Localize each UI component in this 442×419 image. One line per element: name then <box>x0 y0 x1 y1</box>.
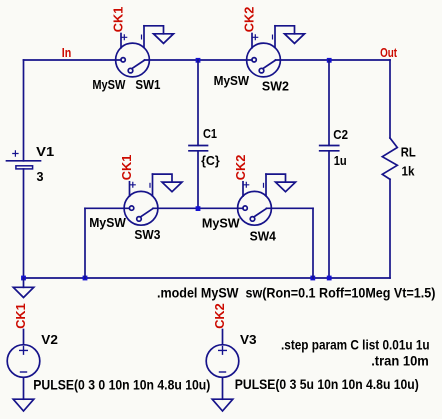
svg-text:1u: 1u <box>334 153 347 168</box>
svg-text:CK1: CK1 <box>119 155 134 181</box>
SW3 control pin minus <box>152 174 154 196</box>
SW4 pivot contact circle <box>250 217 255 222</box>
SW2 plus mark <box>252 34 258 40</box>
svg-text:CK1: CK1 <box>111 7 126 33</box>
junction bus at SW4 branch <box>310 276 315 281</box>
svg-text:CK2: CK2 <box>233 155 248 180</box>
junction bus at C2 <box>327 276 332 281</box>
switch SW3 body circle <box>124 174 158 225</box>
junction bus at SW3 branch <box>83 276 88 281</box>
svg-text:CK2: CK2 <box>242 7 257 33</box>
wire: C2 bottom branch to bus <box>328 151 330 278</box>
svg-text:SW1: SW1 <box>135 77 160 92</box>
SW1 switch arm <box>132 60 145 69</box>
ground flag at SW1 minus pin <box>144 26 174 44</box>
SW3 switch arm <box>140 208 153 217</box>
svg-text:CK2: CK2 <box>212 303 227 329</box>
SW1 control pin minus <box>143 26 145 48</box>
SW2 control pin plus <box>251 34 253 48</box>
wire: SW4 right pin to right branch <box>267 207 314 209</box>
ground flag at SW4 minus pin <box>266 174 296 192</box>
capacitor C1 plates <box>189 146 208 151</box>
svg-text:V3: V3 <box>240 332 257 347</box>
wire: C1 bottom branch <box>197 151 199 208</box>
ground flag at SW3 minus pin <box>153 174 183 192</box>
SW4 plus mark <box>243 182 249 188</box>
switch SW2 body circle <box>247 26 281 77</box>
svg-text:.step param C list 0.01u 1u: .step param C list 0.01u 1u <box>281 337 430 353</box>
V2 top pin wire <box>23 330 25 345</box>
svg-text:MySW: MySW <box>92 77 126 92</box>
wire: left branch to SW3 <box>85 207 129 209</box>
SW3 pivot contact circle <box>137 217 142 222</box>
ground flag at bus <box>13 278 33 298</box>
SW4 control pin plus <box>242 182 244 196</box>
resistor RL zigzag <box>382 138 397 179</box>
SW2 minus mark <box>272 35 274 40</box>
SW4 minus mark <box>263 183 265 188</box>
V3 bottom pin wire <box>222 377 224 399</box>
SW2 left contact circle <box>252 58 256 62</box>
wire: C2 top branch <box>328 60 330 145</box>
SW1 plus mark <box>121 34 127 40</box>
V2 circle <box>7 345 40 378</box>
V2 minus mark <box>20 371 27 373</box>
svg-text:SW3: SW3 <box>134 227 160 242</box>
voltage source V1 battery <box>7 150 41 169</box>
wire: left vertical from In corner to V1 plus <box>23 60 25 161</box>
wire: Out vertical down to RL <box>389 60 391 138</box>
svg-text:C1: C1 <box>203 126 217 141</box>
voltage source V2 <box>7 330 40 400</box>
wire: vertical SW4 branch to bus <box>312 208 314 278</box>
V1 plus mark <box>12 150 18 156</box>
wire: SW3 right pin to SW4 left pin <box>153 207 243 209</box>
SW2 control pin minus <box>274 26 276 48</box>
switch SW1 body circle <box>116 26 150 77</box>
SW2 switch arm <box>263 60 276 69</box>
ground flag at SW2 minus pin <box>275 26 305 44</box>
V3 circle <box>206 345 239 378</box>
SW1 left contact circle <box>121 58 125 62</box>
junction at C2 top <box>327 58 332 63</box>
SW3 control pin plus <box>129 182 131 196</box>
V2 bottom pin wire <box>23 377 25 399</box>
voltage source V3 <box>206 330 239 400</box>
V3 top pin wire <box>222 330 224 345</box>
svg-text:C2: C2 <box>333 127 348 142</box>
SW1 minus mark <box>141 35 143 40</box>
junction bus at V1 <box>21 276 26 281</box>
svg-text:SW2: SW2 <box>262 79 289 94</box>
svg-text:MySW: MySW <box>202 216 241 231</box>
SW4 control pin minus <box>265 174 267 196</box>
junction at C1 bottom <box>196 206 201 211</box>
svg-text:.tran 10m: .tran 10m <box>371 353 429 369</box>
svg-text:PULSE(0 3 5u 10n 10n 4.8u 10u): PULSE(0 3 5u 10n 10n 4.8u 10u) <box>235 376 419 392</box>
V3 plus mark <box>218 346 227 355</box>
svg-text:V2: V2 <box>41 332 58 347</box>
V3 minus mark <box>219 371 226 373</box>
junction at C1 top <box>196 58 201 63</box>
V1 long plate <box>7 160 41 162</box>
wire: vertical SW3 branch to bus <box>84 208 86 278</box>
wire: C1 top branch <box>197 60 199 145</box>
wire: SW1 right pin to SW2 left pin <box>145 59 253 61</box>
svg-text:SW4: SW4 <box>250 229 277 244</box>
ground flag at V2 <box>13 399 34 411</box>
wire: In net, top-left horizontal <box>24 59 122 61</box>
svg-text:RL: RL <box>401 145 416 160</box>
SW2 pivot contact circle <box>259 68 264 73</box>
svg-text:CK1: CK1 <box>13 303 28 329</box>
wire: SW2 right pin to Out corner <box>276 59 391 61</box>
svg-text:.model MySW sw(Ron=0.1 Roff=1: .model MySW sw(Ron=0.1 Roff=10Meg Vt=1.5… <box>157 285 435 301</box>
svg-text:{C}: {C} <box>201 153 220 168</box>
switch SW4 body circle <box>238 174 272 225</box>
svg-text:3: 3 <box>37 169 44 184</box>
SW4 switch arm <box>254 208 267 217</box>
capacitor C2 plates <box>320 146 339 151</box>
svg-text:V1: V1 <box>36 144 54 159</box>
ground flag at V3 <box>212 399 233 411</box>
SW1 control pin plus <box>120 34 122 48</box>
wire: ground bus horizontal <box>24 277 391 279</box>
wire: V1 minus down to bus <box>23 169 25 278</box>
wire: RL bottom to bus <box>389 179 391 278</box>
svg-text:Out: Out <box>380 45 398 60</box>
SW3 left contact circle <box>129 206 133 210</box>
SW1 pivot contact circle <box>128 68 133 73</box>
V1 short plate box <box>16 166 33 169</box>
V2 plus mark <box>19 346 28 355</box>
SW4 left contact circle <box>243 206 247 210</box>
svg-text:In: In <box>62 45 72 60</box>
svg-text:MySW: MySW <box>214 73 250 88</box>
SW3 minus mark <box>149 183 151 188</box>
svg-text:PULSE(0 3 0 10n 10n 4.8u 10u): PULSE(0 3 0 10n 10n 4.8u 10u) <box>33 376 210 392</box>
svg-text:1k: 1k <box>402 164 416 179</box>
SW3 plus mark <box>130 182 136 188</box>
svg-text:MySW: MySW <box>89 215 126 230</box>
